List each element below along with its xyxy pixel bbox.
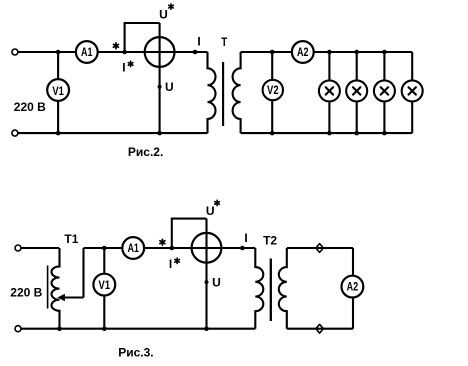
wire: T2 secondary loop top: [287, 247, 353, 249]
wire: lamp branch 1: [328, 52, 330, 133]
svg-text:U: U: [212, 276, 221, 290]
label * (wattmeter W1 current star): [113, 43, 118, 49]
node: V1 branch top junction: [102, 246, 107, 251]
node: V2 bottom junction: [270, 131, 275, 136]
node: junction top of V1 branch: [56, 50, 61, 55]
autotransformer T1 winding: [51, 248, 59, 329]
autotransformer T1 core bar: [47, 266, 49, 309]
transformer T2 primary winding: [255, 248, 263, 329]
node: lamp3 top junction: [382, 50, 387, 55]
wire: lamp branch 2: [356, 52, 358, 133]
node: V2 top junction: [270, 50, 275, 55]
voltmeter V1: [47, 79, 69, 101]
svg-text:Рис.3.: Рис.3.: [118, 345, 153, 359]
voltmeter V1 (circuit 2): [93, 274, 115, 296]
node: W2 jumper junction: [170, 246, 175, 251]
wire: V2 branch: [271, 52, 273, 133]
node: V1 branch bottom junction: [102, 326, 107, 331]
transformer T secondary winding: [233, 52, 241, 133]
input terminal (top left): [15, 245, 21, 251]
svg-text:U: U: [165, 80, 174, 94]
node: lamp1 bottom junction: [327, 131, 332, 136]
node: I terminal dot on top rail: [193, 50, 198, 55]
lamp EL2: [346, 80, 367, 101]
svg-text:U: U: [206, 204, 215, 218]
label * (wattmeter W2 current star): [160, 239, 165, 245]
wire: wattmeter vertical (voltage path) down to bottom rail: [159, 23, 161, 133]
svg-text:220 В: 220 В: [14, 100, 46, 114]
node: lamp2 bottom junction: [354, 131, 359, 136]
svg-text:V1: V1: [52, 86, 64, 98]
wire: top rail from left terminal to transformer T primary: [18, 51, 208, 53]
node: lamp3 bottom junction: [382, 131, 387, 136]
wire: bottom rail: [21, 328, 255, 330]
wire: T2 secondary loop right: [352, 248, 354, 329]
svg-text:T2: T2: [263, 234, 277, 248]
node: lamp1 top junction: [327, 50, 332, 55]
svg-text:I: I: [122, 61, 125, 75]
svg-text:A2: A2: [297, 47, 309, 59]
node: W2 U line bottom junction: [204, 326, 209, 331]
lamp EL1: [319, 80, 340, 101]
svg-text:A2: A2: [347, 282, 359, 294]
transformer T2 core: [270, 259, 272, 322]
wire: T2 secondary loop bottom: [287, 328, 353, 330]
node: jumper junction on top rail: [122, 50, 127, 55]
node: W2 I terminal dot: [240, 246, 245, 251]
wire: W2 vertical (voltage path): [205, 219, 207, 329]
node: W2 U terminal dot: [205, 280, 209, 284]
lamp EL3: [374, 80, 395, 101]
ammeter A2 (circuit 2): [342, 276, 364, 298]
svg-text:T1: T1: [64, 232, 78, 246]
output terminal diamond (bottom): [316, 324, 324, 333]
wire: bottom rail from left terminal to transformer T primary: [18, 132, 208, 134]
ammeter A2: [292, 41, 314, 63]
wire: lamp branch 3: [383, 52, 385, 133]
wire: T1 tap shaft: [62, 296, 84, 298]
svg-text:U: U: [159, 8, 168, 22]
node: lamp2 top junction: [354, 50, 359, 55]
wire: V1 branch vertical: [57, 52, 59, 133]
T1 tap arrowhead: [57, 294, 65, 302]
wire: V1 branch: [103, 248, 105, 329]
input terminal (bottom left): [12, 130, 18, 136]
svg-text:220 В: 220 В: [10, 285, 42, 299]
lamp EL4: [402, 80, 423, 101]
input terminal (bottom left): [15, 326, 21, 332]
node: U terminal dot on wattmeter vertical: [158, 85, 162, 89]
node: junction bottom of V1 branch: [56, 131, 61, 136]
svg-text:I: I: [197, 35, 200, 49]
wire: secondary loop bottom rail: [241, 132, 413, 134]
svg-text:I: I: [244, 231, 247, 245]
wattmeter W2: [192, 233, 222, 263]
svg-text:Рис.2.: Рис.2.: [128, 145, 163, 159]
input terminal (top left): [12, 49, 18, 55]
output terminal diamond (top): [316, 244, 324, 253]
wire: wattmeter voltage-coil jumper: [125, 23, 160, 52]
ammeter A1 (circuit 2): [122, 237, 144, 259]
voltmeter V2: [263, 80, 283, 100]
ammeter A1: [76, 41, 98, 63]
svg-text:V2: V2: [267, 85, 279, 97]
node: T1 bottom junction: [57, 326, 62, 331]
svg-text:V1: V1: [99, 280, 111, 292]
svg-text:I: I: [169, 257, 172, 271]
wire: wattmeter W2 voltage-coil jumper: [172, 219, 207, 248]
wattmeter W1: [145, 37, 175, 67]
wire: top lead from left terminal to T1: [21, 247, 59, 249]
svg-text:T: T: [221, 35, 228, 49]
wire: secondary loop top rail: [241, 51, 413, 53]
wire: tap riser: [82, 248, 84, 298]
svg-text:A1: A1: [127, 243, 139, 255]
wire: secondary loop right side: [411, 52, 413, 133]
transformer T core: [222, 62, 224, 126]
svg-text:A1: A1: [81, 47, 93, 59]
wire: top rail from tap to T2 primary: [84, 247, 256, 249]
node: U line junction on bottom rail: [157, 131, 162, 136]
transformer T2 secondary winding: [279, 248, 287, 329]
transformer T primary winding: [208, 52, 216, 133]
